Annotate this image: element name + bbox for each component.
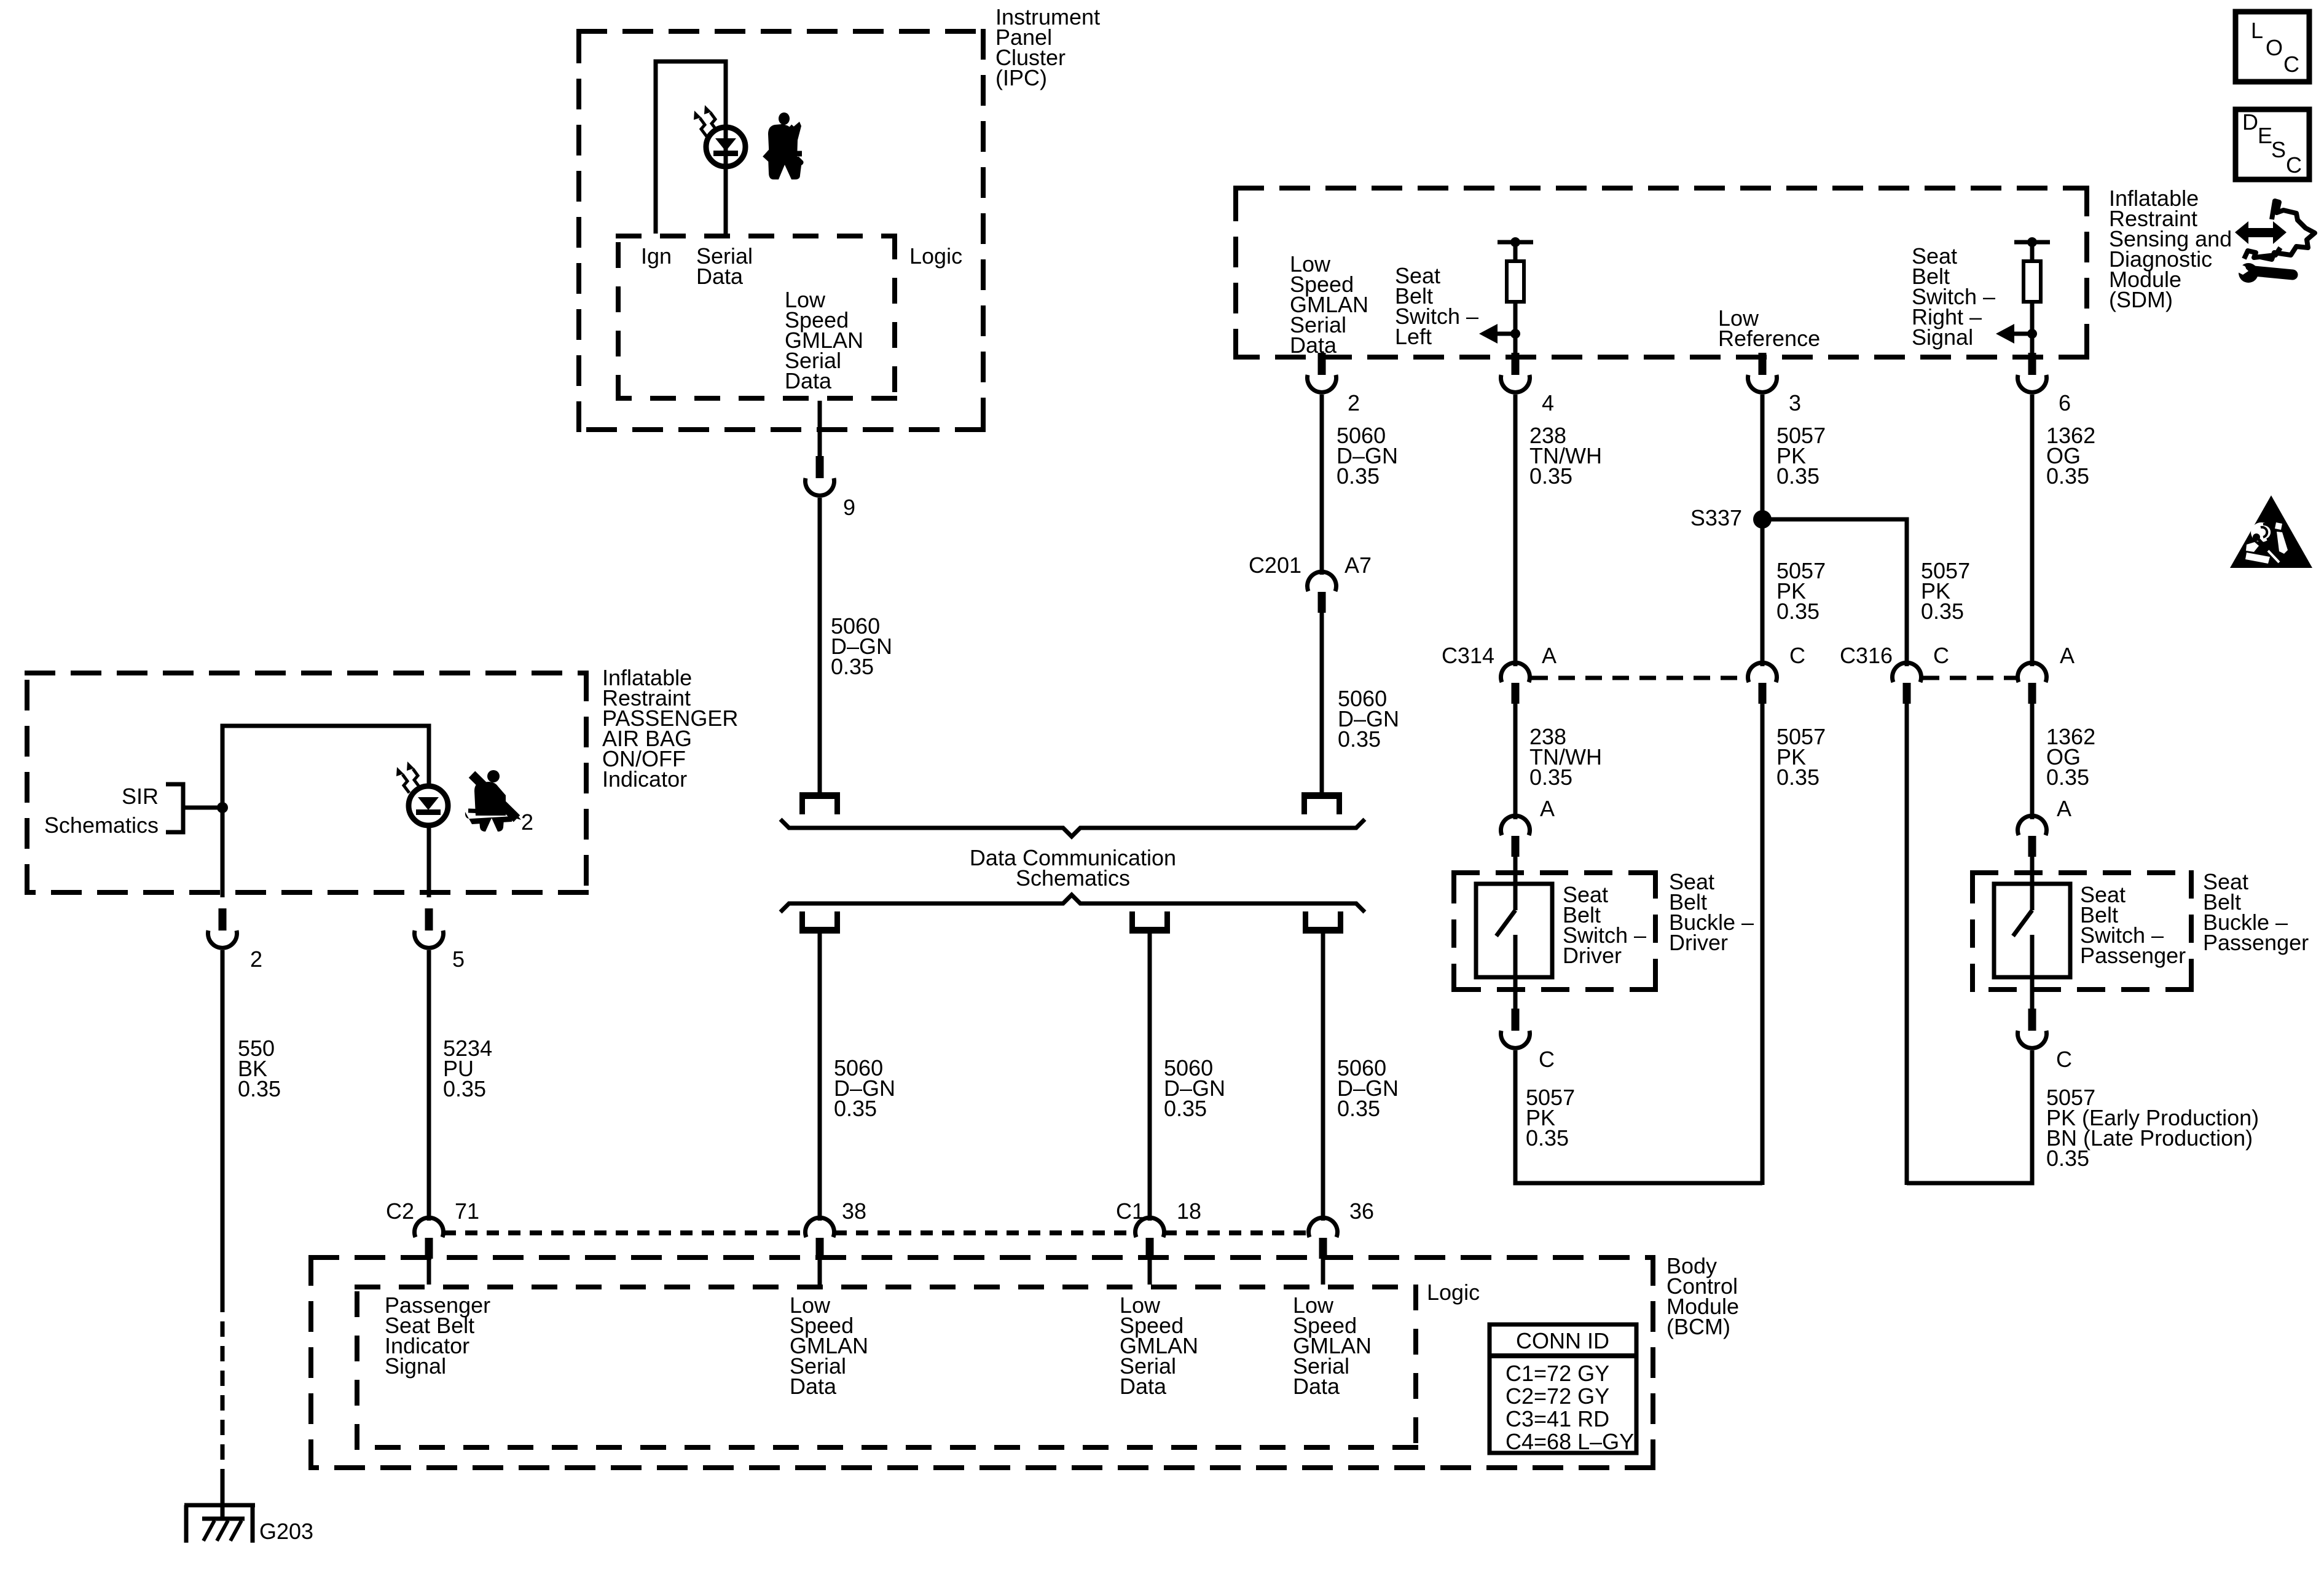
svg-text:A: A: [1542, 643, 1557, 668]
wire passenger switch to pin C: [2030, 977, 2035, 1011]
connector pin 3 of SDM: [1759, 353, 1767, 375]
svg-text:0.35: 0.35: [1337, 1096, 1380, 1121]
svg-text:Data: Data: [1290, 333, 1337, 358]
component box Seat Belt Buckle - Driver: [1451, 870, 1658, 875]
svg-text:36: 36: [1349, 1198, 1374, 1224]
svg-text:SIR: SIR: [122, 784, 159, 809]
icon box DESC: [2236, 109, 2309, 179]
module box Inflatable Restraint PASSENGER AIR BAG ON/OFF Indicator: [25, 671, 589, 675]
wire 1362 C316-A to passenger switch A: [2030, 701, 2035, 819]
switch Seat Belt Switch - Passenger: [1994, 884, 2070, 977]
table CONN ID: [1490, 1324, 1636, 1453]
module box Instrument Panel Cluster (IPC): [576, 29, 986, 34]
svg-text:Signal: Signal: [1912, 325, 1973, 350]
LED indicator lamp (air bag on/off): [409, 786, 448, 825]
wire 5060 bus drop to BCM 38: [818, 934, 822, 1221]
svg-text:71: 71: [455, 1198, 479, 1224]
connector C1 terminal 18 (BCM): [1136, 1218, 1164, 1237]
svg-text:(IPC): (IPC): [995, 65, 1047, 90]
connector terminal A (passenger buckle): [2018, 816, 2047, 835]
light arrows (left LED): [402, 774, 409, 793]
connector pin 2 (indicator): [219, 908, 227, 931]
svg-text:L: L: [2251, 18, 2263, 43]
splice S337: [1753, 510, 1772, 529]
wire 5057 SDM pin3 to S337: [1761, 395, 1765, 519]
wire LED down: [427, 825, 431, 897]
connector C314 terminal A: [1501, 663, 1530, 682]
svg-text:3: 3: [1789, 390, 1801, 415]
node junction (SIR wire): [217, 802, 228, 813]
svg-text:Data: Data: [785, 368, 832, 393]
SIR schematics bracket: [166, 784, 183, 832]
svg-text:38: 38: [842, 1198, 866, 1224]
svg-text:0.35: 0.35: [1776, 599, 1820, 624]
svg-text:C: C: [1539, 1047, 1555, 1072]
resistor seat belt switch left pull-up: [1498, 240, 1533, 245]
terminator step above upper brace (x2151): [1301, 792, 1342, 799]
svg-text:C: C: [2056, 1047, 2072, 1072]
svg-text:C316: C316: [1840, 643, 1893, 668]
terminator step above upper brace (x1334): [799, 792, 840, 799]
svg-text:E: E: [2258, 123, 2272, 148]
wire 5060 bus drop to BCM 18: [1148, 934, 1152, 1221]
wire 5060 bus drop to BCM 36: [1321, 934, 1325, 1221]
svg-text:0.35: 0.35: [1164, 1096, 1207, 1121]
connector C201 terminal A7: [1307, 572, 1336, 591]
wire 1362 SDM pin6 to C316: [2030, 395, 2035, 666]
connector C316 terminal A: [2018, 663, 2047, 682]
wire 5234 PU to BCM C2-71: [427, 950, 431, 1221]
svg-text:0.35: 0.35: [1338, 726, 1381, 752]
svg-text:C: C: [2286, 152, 2302, 178]
svg-text:Data: Data: [696, 264, 744, 289]
icon box LOC: [2236, 12, 2309, 82]
wire 5060 SDM pin2 to C201: [1320, 395, 1324, 575]
wire 36 into BCM logic: [1321, 1259, 1325, 1285]
svg-text:C4=68 L–GY: C4=68 L–GY: [1505, 1429, 1634, 1454]
svg-text:A: A: [1540, 796, 1555, 821]
arrow signal tap (left): [1479, 324, 1498, 344]
icon connector repair (double arrow, outline, wrench): [2235, 201, 2315, 283]
module box Body Control Module (BCM): [308, 1255, 1655, 1260]
wire passenger C return to C316-C: [1907, 1050, 2032, 1183]
connector C2 terminal 71 (BCM): [415, 1218, 444, 1237]
svg-text:S: S: [2271, 137, 2286, 162]
connector terminal A (driver buckle): [1501, 816, 1530, 835]
terminator step below lower brace (x1871): [1129, 927, 1170, 934]
svg-text:0.35: 0.35: [443, 1076, 486, 1101]
wire pin6 internal: [2030, 334, 2035, 362]
svg-text:0.35: 0.35: [1529, 765, 1572, 790]
terminator step below lower brace (x2153): [1303, 927, 1343, 934]
wire driver C return to C314-C: [1515, 1050, 1762, 1183]
svg-text:2: 2: [250, 946, 262, 972]
connector C316 terminal C: [1892, 663, 1921, 682]
svg-text:Data: Data: [790, 1374, 837, 1399]
connector pin 9 of IPC: [816, 456, 824, 478]
svg-text:5: 5: [452, 946, 465, 972]
svg-text:0.35: 0.35: [2046, 1146, 2089, 1171]
svg-text:(BCM): (BCM): [1666, 1314, 1730, 1339]
wire S337 down to C314-C: [1761, 519, 1765, 666]
lower brace (data communication schematics): [780, 895, 1365, 912]
dashed connector line C316: [1923, 676, 2017, 680]
svg-text:C3=41 RD: C3=41 RD: [1505, 1406, 1609, 1431]
upper brace (data communication schematics): [780, 819, 1365, 836]
svg-text:Passenger: Passenger: [2203, 930, 2309, 955]
svg-text:4: 4: [1542, 390, 1554, 415]
svg-text:A7: A7: [1345, 553, 1372, 578]
connector terminal C (driver buckle): [1512, 1009, 1520, 1031]
svg-text:0.35: 0.35: [1337, 463, 1380, 489]
connector pin 6 of SDM: [2028, 353, 2036, 375]
svg-text:Signal: Signal: [385, 1353, 446, 1379]
svg-text:(SDM): (SDM): [2109, 287, 2173, 312]
svg-text:Schematics: Schematics: [44, 813, 159, 838]
svg-text:Reference: Reference: [1718, 326, 1820, 351]
logic box IPC Logic: [616, 234, 897, 238]
svg-text:0.35: 0.35: [1776, 765, 1820, 790]
icon fastened seat belt (IPC): [768, 122, 801, 160]
dashed connector line C314: [1531, 676, 1747, 680]
svg-text:Logic: Logic: [909, 243, 962, 269]
connector terminal 36 (BCM): [1309, 1218, 1338, 1237]
svg-text:0.35: 0.35: [1921, 599, 1964, 624]
svg-text:0.35: 0.35: [831, 654, 874, 679]
svg-text:A: A: [2060, 643, 2075, 668]
wire indicator loop: [222, 726, 429, 808]
svg-text:C201: C201: [1249, 553, 1301, 578]
wire 5057 C314-C down: [1761, 701, 1765, 1185]
svg-text:Logic: Logic: [1427, 1280, 1480, 1305]
wire 550 BK ground run: [221, 950, 225, 1297]
svg-text:Data: Data: [1120, 1374, 1167, 1399]
svg-text:Indicator: Indicator: [602, 766, 687, 792]
svg-text:0.35: 0.35: [1526, 1125, 1569, 1151]
svg-text:0.35: 0.35: [238, 1076, 281, 1101]
connector terminal 38 (BCM): [806, 1218, 834, 1237]
light arrows (IPC LED): [700, 118, 707, 136]
svg-text:2: 2: [1348, 390, 1360, 415]
svg-text:O: O: [2266, 35, 2283, 60]
svg-text:Left: Left: [1395, 324, 1432, 349]
wire 18 into BCM logic: [1148, 1259, 1152, 1285]
svg-text:Ign: Ign: [641, 243, 672, 269]
wire S337 branch to C316-C: [1762, 519, 1907, 666]
svg-text:S337: S337: [1690, 505, 1742, 530]
svg-text:Driver: Driver: [1669, 930, 1728, 955]
svg-text:6: 6: [2059, 390, 2071, 415]
connector terminal C (passenger buckle): [2028, 1009, 2036, 1031]
svg-text:Driver: Driver: [1563, 943, 1622, 968]
svg-text:C314: C314: [1442, 643, 1494, 668]
resistor seat belt switch right pull-up: [2014, 240, 2050, 245]
wire 238 C314 to driver switch A: [1513, 701, 1518, 819]
svg-text:C: C: [1789, 643, 1805, 668]
svg-text:Passenger: Passenger: [2080, 943, 2186, 968]
svg-text:C2: C2: [386, 1198, 414, 1224]
svg-text:0.35: 0.35: [2046, 463, 2089, 489]
svg-text:2: 2: [521, 809, 533, 835]
logic box BCM Logic: [355, 1285, 1418, 1289]
svg-text:C1=72 GY: C1=72 GY: [1505, 1361, 1609, 1386]
wire into passenger switch: [2030, 854, 2035, 886]
switch Seat Belt Switch - Driver: [1476, 884, 1552, 977]
svg-text:0.35: 0.35: [834, 1096, 877, 1121]
wire 238 SDM pin4 to C314: [1513, 395, 1518, 666]
wire IPC serial data output: [818, 401, 822, 460]
dotted connector line C2/C1 row: [444, 1230, 805, 1235]
svg-text:A: A: [2057, 796, 2071, 821]
svg-text:D: D: [2242, 109, 2258, 135]
wire pin4 internal: [1513, 334, 1518, 362]
wire down from junction: [221, 808, 225, 897]
icon SIR caution triangle: [2230, 495, 2312, 568]
connector pin 2 of SDM: [1318, 353, 1326, 375]
wire 38 into BCM logic: [818, 1259, 822, 1285]
wire 5060 C201 to bus: [1320, 612, 1324, 792]
wire 5057 C316-C down: [1905, 701, 1909, 1185]
wire driver switch to pin C: [1513, 977, 1518, 1011]
svg-text:Data: Data: [1293, 1374, 1340, 1399]
svg-text:C: C: [1933, 643, 1949, 668]
svg-text:9: 9: [843, 495, 855, 520]
svg-text:0.35: 0.35: [2046, 765, 2089, 790]
svg-text:0.35: 0.35: [1529, 463, 1572, 489]
component box Seat Belt Buckle - Passenger: [1970, 870, 2194, 875]
connector C314 terminal C: [1748, 663, 1777, 682]
svg-text:C1: C1: [1116, 1198, 1144, 1224]
svg-text:18: 18: [1177, 1198, 1201, 1224]
connector pin 4 of SDM: [1512, 353, 1520, 375]
ground G203: [184, 1503, 255, 1508]
svg-text:0.35: 0.35: [1776, 463, 1820, 489]
svg-text:CONN ID: CONN ID: [1516, 1328, 1609, 1353]
wire 5060 from IPC to data bus: [818, 498, 822, 792]
svg-text:Schematics: Schematics: [1016, 865, 1130, 891]
svg-text:C: C: [2283, 52, 2299, 77]
icon unfastened seat belt with 2: [474, 782, 506, 816]
svg-text:C2=72 GY: C2=72 GY: [1505, 1383, 1609, 1409]
svg-text:G203: G203: [259, 1519, 313, 1544]
wire into driver switch: [1513, 854, 1518, 886]
LED indicator lamp (IPC seat belt telltale): [706, 127, 745, 167]
wire Ign loop: [656, 61, 726, 234]
module box Inflatable Restraint Sensing and Diagnostic Module (SDM): [1233, 186, 2089, 191]
connector pin 5 (indicator): [425, 908, 433, 931]
terminator step below lower brace (x1334): [799, 927, 840, 934]
wire C2 into BCM logic: [427, 1259, 431, 1285]
arrow signal tap (right): [1996, 324, 2014, 344]
